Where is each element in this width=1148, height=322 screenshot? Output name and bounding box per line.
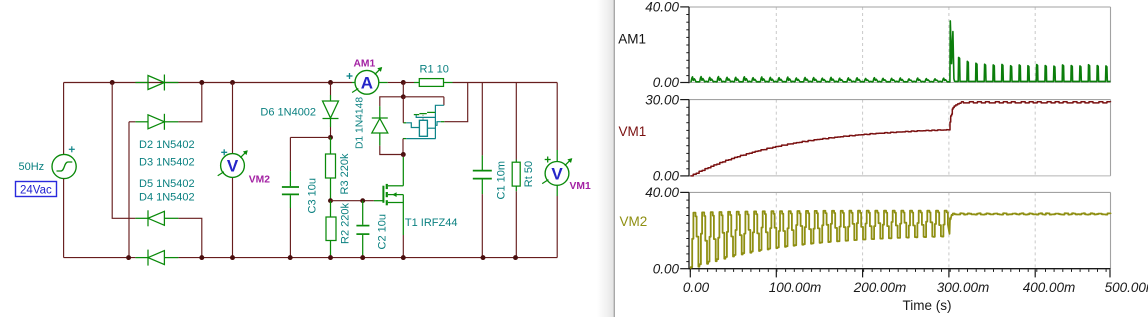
svg-text:AM1: AM1 <box>618 31 646 46</box>
node C1 bottom <box>481 255 486 260</box>
svg-text:D6 1N4002: D6 1N4002 <box>260 106 316 118</box>
svg-text:0.00: 0.00 <box>653 169 680 184</box>
node DC+ <box>199 80 204 85</box>
wire top rail left segment <box>64 82 352 84</box>
wire gate row <box>331 200 374 202</box>
plot frames <box>689 6 1111 8</box>
node VM2 top <box>230 80 235 85</box>
node AM1 out <box>401 80 406 85</box>
wire relay row <box>403 96 444 98</box>
y axis major tick dashes <box>680 6 689 8</box>
svg-text:D4 1N5402: D4 1N5402 <box>139 192 195 204</box>
svg-text:50Hz: 50Hz <box>19 161 45 173</box>
svg-text:R2 220k: R2 220k <box>340 203 352 244</box>
node gate divider left <box>328 198 333 203</box>
node C2 bottom <box>360 255 365 260</box>
diode D2 <box>135 82 148 84</box>
diode D1 <box>380 97 404 106</box>
node C3 bottom <box>288 255 293 260</box>
source lead down <box>402 195 404 235</box>
svg-text:R1 10: R1 10 <box>420 63 449 75</box>
relay link dashes <box>422 115 424 116</box>
svg-text:V: V <box>227 157 239 176</box>
svg-text:D3 1N5402: D3 1N5402 <box>139 157 195 169</box>
svg-text:24Vac: 24Vac <box>20 184 52 196</box>
wire left column bottom <box>63 179 65 258</box>
svg-text:500.00m: 500.00m <box>1105 280 1148 295</box>
svg-text:0.00: 0.00 <box>653 75 680 90</box>
wire VM2 column <box>232 83 234 154</box>
svg-text:40.00: 40.00 <box>645 185 679 200</box>
svg-text:T1 IRFZ44: T1 IRFZ44 <box>405 217 458 229</box>
gate lead <box>374 200 384 202</box>
voltage generator 24Vac 50Hz <box>52 154 76 178</box>
node DC- <box>199 255 204 260</box>
svg-text:C2 10u: C2 10u <box>377 214 389 249</box>
svg-text:Time (s): Time (s) <box>903 298 952 313</box>
svg-text:30.00: 30.00 <box>645 92 679 107</box>
x axis <box>689 268 1111 270</box>
relay coil right pin <box>427 127 435 129</box>
voltmeter VM2 <box>221 154 245 178</box>
plot gridlines <box>775 7 777 83</box>
capacitor C1 <box>481 83 483 156</box>
node AC2 bottom <box>126 255 131 260</box>
svg-text:D1 1N4148: D1 1N4148 <box>354 97 365 149</box>
wire junction to C3 <box>290 136 330 138</box>
svg-text:0.00: 0.00 <box>653 261 680 276</box>
svg-text:D2 1N5402: D2 1N5402 <box>139 139 195 151</box>
node drain <box>401 152 406 157</box>
svg-text:A: A <box>361 74 373 93</box>
svg-text:AM1: AM1 <box>354 59 376 70</box>
label 24Vac <box>16 182 57 197</box>
node relay top <box>401 94 406 99</box>
svg-text:VM2: VM2 <box>620 214 648 229</box>
node R2 bottom <box>328 255 333 260</box>
wire left column top <box>63 83 65 155</box>
wire D4 anode down to DC- <box>178 218 201 257</box>
svg-text:R3 220k: R3 220k <box>339 153 351 194</box>
trace VM2 <box>690 211 1110 269</box>
wire VM1 column <box>556 83 558 151</box>
wire switch feed <box>443 97 445 106</box>
svg-text:40.00: 40.00 <box>645 0 679 15</box>
node D6 top <box>328 80 333 85</box>
trace AM1 <box>690 21 1110 82</box>
relay switch right branch <box>444 83 467 122</box>
svg-text:VM2: VM2 <box>249 175 270 186</box>
node source bottom <box>401 255 406 260</box>
wire D3 anode down <box>128 122 130 258</box>
node AC1 top <box>110 80 115 85</box>
ammeter AM1 <box>352 82 355 84</box>
wire bottom rail <box>64 257 136 259</box>
trace VM1 <box>690 102 1110 176</box>
relay coil <box>419 120 427 136</box>
voltmeter VM1 <box>545 162 569 186</box>
relay bottom wire <box>406 138 435 140</box>
svg-text:VM1: VM1 <box>619 124 647 139</box>
diode D5 <box>135 257 148 259</box>
relay coil left pin <box>406 123 419 128</box>
svg-text:C1 10m: C1 10m <box>495 161 507 200</box>
svg-text:200.00m: 200.00m <box>853 280 907 295</box>
svg-text:300.00m: 300.00m <box>937 280 990 295</box>
svg-text:Rt 50: Rt 50 <box>523 161 535 187</box>
node Rt bottom <box>513 255 518 260</box>
diode D4 <box>135 217 148 219</box>
svg-text:C3 10u: C3 10u <box>306 178 318 213</box>
resistor R2 <box>330 201 332 217</box>
y axes <box>688 7 690 83</box>
capacitor C2 <box>362 201 364 225</box>
node gate/C2 <box>360 198 365 203</box>
wire D3 cathode up to DC+ <box>178 83 201 122</box>
svg-text:D5 1N5402: D5 1N5402 <box>139 178 195 190</box>
svg-text:100.00m: 100.00m <box>769 280 822 295</box>
node D6 bottom junction <box>328 135 333 140</box>
svg-text:VM1: VM1 <box>570 181 591 192</box>
node VM2 bottom <box>230 255 235 260</box>
resistor R1 <box>403 82 414 84</box>
diode D3 <box>129 121 135 123</box>
resistor Rt <box>515 83 517 160</box>
resistor R3 <box>330 137 332 154</box>
capacitor C3 <box>289 137 291 171</box>
relay U1 switch <box>435 105 444 138</box>
transistor T1 IRFZ44 <box>402 155 404 158</box>
diode D6 <box>330 83 332 96</box>
svg-text:0.00: 0.00 <box>683 280 710 295</box>
svg-text:V: V <box>551 165 563 184</box>
wire node stub <box>402 83 404 97</box>
wire AC1 vertical <box>112 83 135 219</box>
svg-text:400.00m: 400.00m <box>1023 280 1076 295</box>
